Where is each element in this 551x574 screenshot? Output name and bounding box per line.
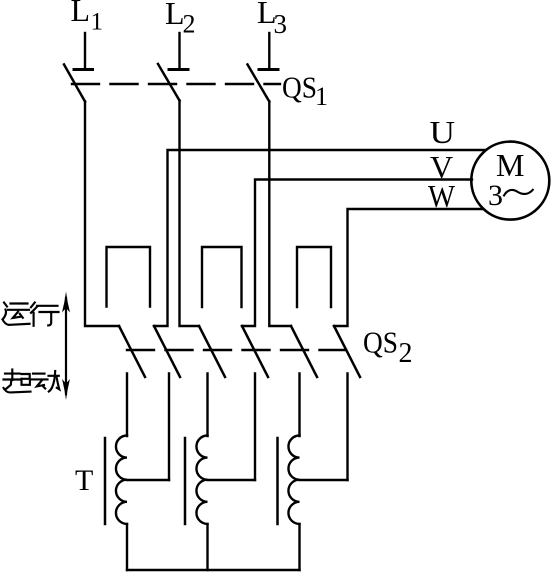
svg-text:1: 1 [315, 82, 328, 111]
wire coil 2 bottom to star bus [206, 524, 208, 570]
terminal contact bar L3 [259, 68, 278, 71]
wire L1 terminal lead [84, 33, 86, 69]
svg-text:1: 1 [91, 9, 104, 36]
coil 3 core bar [276, 438, 279, 524]
wire QS2 lower contact 3 to coil 2 top [206, 374, 208, 437]
svg-text:QS: QS [282, 70, 317, 105]
wire QS2 lower contact 4 (tap 2) [254, 374, 256, 481]
terminal contact bar L2 [169, 68, 188, 71]
bypass loop 2 (run contacts phase 2) [202, 247, 242, 307]
star point bus wire [127, 569, 300, 571]
wire L2 terminal lead [178, 33, 180, 69]
switch QS2 blade 4 [242, 326, 268, 377]
bypass loop 1 (run contacts phase 1) [107, 247, 151, 307]
wire QS2 lower contact 1 to coil 1 top [126, 374, 128, 437]
svg-text:M: M [496, 147, 524, 183]
run label (hanzi yun-xing drawn as strokes) [3, 303, 59, 326]
wire phase 1 vertical with jog to QS2 pivot [85, 102, 119, 327]
run/start double arrow [62, 292, 70, 401]
svg-text:T: T [75, 464, 93, 497]
svg-text:W: W [428, 178, 456, 214]
svg-text:L: L [71, 0, 91, 28]
wire QS2 lower contact 5 to coil 3 top [298, 374, 300, 437]
wire motor lead V [242, 180, 472, 327]
switch QS1 blade pole 2 [158, 64, 180, 101]
svg-text:3: 3 [274, 9, 288, 39]
wire tap 1 horizontal [127, 479, 169, 481]
switch QS1 blade pole 3 [248, 65, 270, 102]
switch QS2 blade 1 [119, 326, 145, 377]
coil 1 core bar [104, 438, 107, 524]
wire phase 3 vertical with jog to QS2 pivot [269, 102, 291, 327]
switch QS2 blade 6 [334, 326, 360, 377]
svg-text:QS: QS [363, 325, 398, 360]
node L1 label [71, 0, 104, 36]
wire coil 3 bottom to star bus [298, 524, 300, 570]
start label (hanzi qi-dong drawn as strokes) [4, 370, 60, 393]
wire coil 1 bottom to star bus [126, 524, 128, 570]
wire tap 3 horizontal [300, 479, 348, 481]
QS2 linkage dashed line [127, 349, 346, 351]
wire QS2 lower contact 2 (tap 1) [168, 374, 170, 481]
node L3 label [257, 0, 287, 39]
svg-text:3: 3 [488, 179, 503, 212]
motor M circle [471, 142, 549, 220]
QS1 linkage dashed line [72, 83, 280, 85]
coil 2 core bar [184, 438, 187, 524]
svg-text:2: 2 [399, 338, 413, 369]
autotransformer coil 2 [196, 436, 207, 524]
switch QS1 label [282, 70, 328, 112]
node L2 label [165, 0, 196, 39]
wire motor lead W [334, 209, 483, 326]
svg-text:2: 2 [183, 10, 196, 39]
wire QS2 lower contact 6 (tap 3) [346, 374, 348, 481]
wire tap 2 horizontal [208, 479, 256, 481]
motor tilde symbol [504, 190, 533, 196]
wire motor lead U [154, 150, 485, 326]
switch QS2 blade 5 [291, 326, 317, 377]
terminal contact bar L1 [74, 68, 93, 71]
autotransformer coil 1 [116, 436, 127, 524]
svg-text:U: U [430, 114, 456, 150]
switch QS1 blade pole 1 [64, 65, 85, 102]
wire phase 2 vertical with jog to QS2 pivot [180, 101, 200, 327]
switch QS2 blade 2 [154, 326, 180, 377]
switch QS2 blade 3 [199, 326, 225, 377]
switch QS2 label [363, 325, 413, 370]
autotransformer coil 3 [288, 436, 299, 524]
wire L3 terminal lead [268, 33, 270, 69]
bypass loop 3 (run contacts phase 3) [297, 247, 331, 307]
